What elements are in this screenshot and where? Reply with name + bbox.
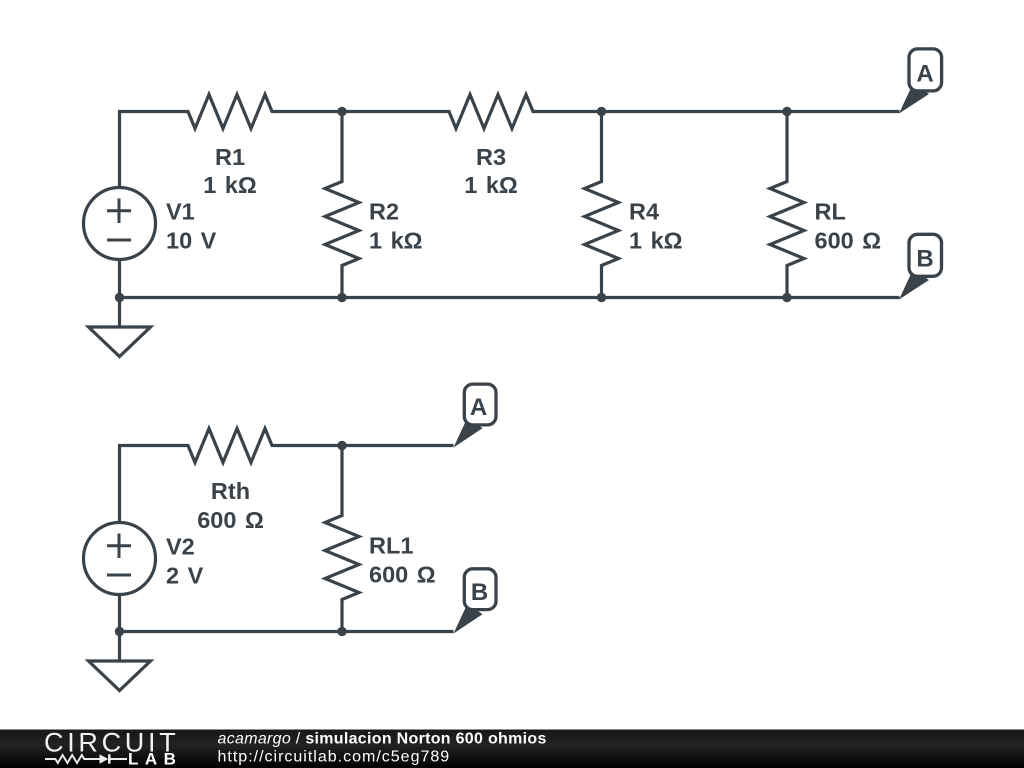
svg-text:B: B bbox=[916, 246, 933, 273]
svg-text:V2: V2 bbox=[166, 534, 195, 560]
svg-text:1 kΩ: 1 kΩ bbox=[369, 228, 423, 254]
svg-text:600 Ω: 600 Ω bbox=[369, 562, 436, 588]
svg-text:B: B bbox=[471, 579, 488, 606]
svg-text:1 kΩ: 1 kΩ bbox=[629, 228, 683, 254]
svg-text:Rth: Rth bbox=[211, 478, 250, 504]
svg-text:R2: R2 bbox=[369, 199, 399, 225]
svg-text:acamargo / simulacion Norton 6: acamargo / simulacion Norton 600 ohmios bbox=[218, 731, 547, 748]
svg-text:R3: R3 bbox=[476, 144, 506, 170]
svg-text:RL1: RL1 bbox=[369, 533, 413, 559]
svg-text:RL: RL bbox=[815, 199, 846, 225]
svg-text:LAB: LAB bbox=[128, 750, 182, 768]
svg-text:1 kΩ: 1 kΩ bbox=[464, 172, 518, 198]
svg-text:http://circuitlab.com/c5eg789: http://circuitlab.com/c5eg789 bbox=[218, 749, 451, 766]
svg-text:V1: V1 bbox=[166, 199, 195, 225]
svg-text:A: A bbox=[470, 394, 487, 421]
svg-text:600 Ω: 600 Ω bbox=[197, 507, 264, 533]
svg-text:A: A bbox=[916, 61, 933, 88]
svg-text:R1: R1 bbox=[215, 144, 245, 170]
svg-text:R4: R4 bbox=[629, 199, 659, 225]
svg-text:600 Ω: 600 Ω bbox=[815, 228, 882, 254]
svg-text:2 V: 2 V bbox=[166, 563, 204, 589]
svg-text:10 V: 10 V bbox=[166, 228, 217, 254]
svg-text:1 kΩ: 1 kΩ bbox=[203, 172, 257, 198]
